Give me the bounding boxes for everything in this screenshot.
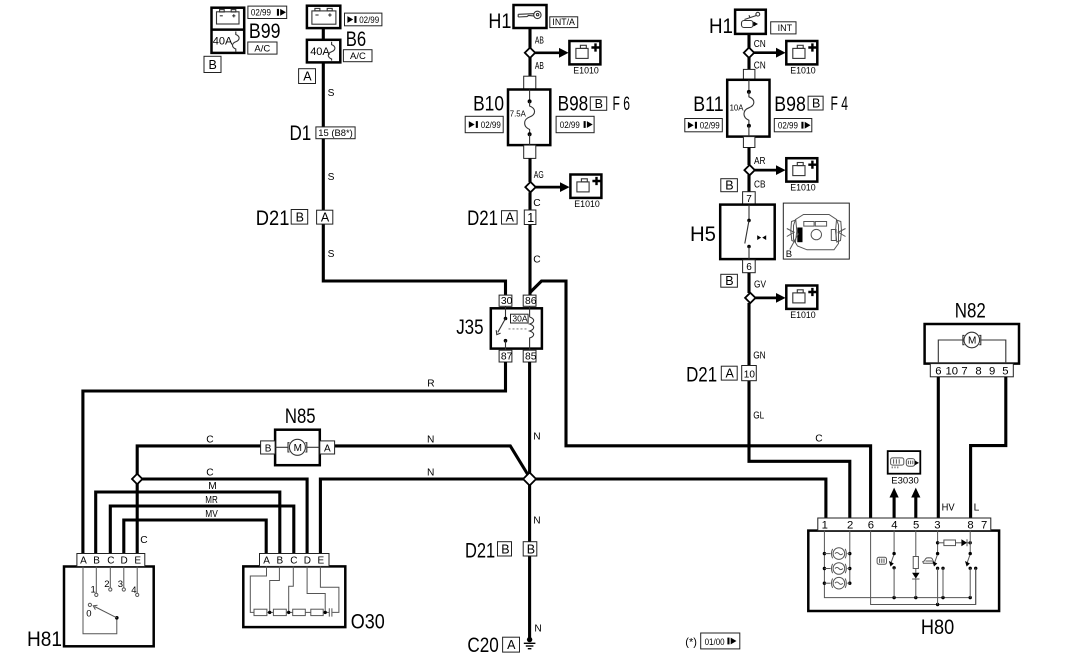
relay J35 xyxy=(491,306,542,350)
pin box 86 (J35) xyxy=(523,295,537,307)
svg-text:3: 3 xyxy=(934,519,940,531)
svg-text:C: C xyxy=(290,556,297,567)
switch contact pin 3 (H80) xyxy=(932,552,944,605)
svg-text:B: B xyxy=(265,443,272,454)
svg-text:1: 1 xyxy=(91,585,96,596)
earth point C20 xyxy=(524,637,536,649)
svg-text:D21: D21 xyxy=(467,207,498,230)
control panel H80 body xyxy=(808,531,999,611)
svg-text:B: B xyxy=(725,274,733,288)
svg-text:02/99: 02/99 xyxy=(560,120,580,131)
svg-text:GL: GL xyxy=(753,410,764,421)
svg-text:02/99: 02/99 xyxy=(481,120,501,131)
svg-text:N85: N85 xyxy=(285,405,316,428)
wire S below D21 and bend to J35 pin 30 xyxy=(323,224,505,295)
svg-text:H1: H1 xyxy=(709,15,733,38)
svg-text:D: D xyxy=(304,556,311,567)
svg-text:A: A xyxy=(321,211,330,225)
svg-text:B: B xyxy=(209,58,217,72)
svg-text:C: C xyxy=(815,433,822,444)
svg-text:E: E xyxy=(318,556,325,567)
wire GL from D21 down and to H80 pin 2 xyxy=(749,380,850,519)
svg-text:A: A xyxy=(726,367,735,381)
svg-text:B98: B98 xyxy=(774,93,806,116)
svg-text:D21: D21 xyxy=(465,540,495,563)
svg-text:E1010: E1010 xyxy=(790,183,816,194)
svg-text:01/00: 01/00 xyxy=(705,637,725,648)
svg-text:B: B xyxy=(527,542,535,556)
location thumbnail (H5 on vehicle) xyxy=(783,203,849,260)
lamp 2 (H80) xyxy=(824,563,849,575)
pin strip A-E (H81) xyxy=(77,554,145,567)
svg-text:B: B xyxy=(296,210,304,224)
svg-text:C: C xyxy=(206,467,213,478)
pin box 87 (J35) xyxy=(499,350,513,362)
wire GV from H5 pin 6 to junction xyxy=(747,273,750,293)
svg-text:B: B xyxy=(93,556,100,567)
pin box 30 (J35) xyxy=(499,295,513,307)
motor N82 xyxy=(925,324,1019,364)
svg-text:O30: O30 xyxy=(351,611,385,634)
svg-text:J35: J35 xyxy=(456,316,483,339)
lamp 3 (H80) xyxy=(824,577,849,589)
svg-text:GN: GN xyxy=(753,351,766,362)
svg-text:N: N xyxy=(427,467,434,478)
earth point E1010 (top left) xyxy=(569,41,600,64)
code box B (B98 left) xyxy=(590,97,606,111)
wire battery B6 to fuse xyxy=(322,28,325,40)
connector stub above fuse B10 xyxy=(524,76,536,89)
fuse B6 40A box xyxy=(307,40,340,63)
battery B6 xyxy=(307,6,340,28)
svg-text:4: 4 xyxy=(131,585,136,596)
connector code box B (D21 left) xyxy=(291,210,308,225)
arrow wire to earth E1010 (AR junction) xyxy=(750,165,786,175)
svg-text:M: M xyxy=(968,336,976,347)
svg-text:B: B xyxy=(786,249,792,260)
wire AR from fuse B11 to junction xyxy=(747,148,750,166)
svg-text:AB: AB xyxy=(535,36,544,47)
connector code box B (H5 lower) xyxy=(721,274,738,288)
svg-text:B: B xyxy=(595,97,603,111)
svg-text:A/C: A/C xyxy=(254,44,270,55)
wire AB from H1 to junction xyxy=(528,28,531,48)
svg-text:HV: HV xyxy=(942,502,955,513)
connector stub above fuse B11 xyxy=(743,69,755,80)
svg-text:8: 8 xyxy=(967,519,973,531)
svg-text:5: 5 xyxy=(913,519,919,531)
validity box from 02/99 (B10 right) xyxy=(556,116,594,132)
car icon (H80) xyxy=(923,558,934,563)
svg-text:6: 6 xyxy=(746,262,752,273)
svg-text:H1: H1 xyxy=(488,10,511,33)
connector code box A (D21 right) xyxy=(721,366,737,380)
junction diamond AR xyxy=(744,165,754,175)
svg-text:(*): (*) xyxy=(685,637,697,649)
svg-text:D21: D21 xyxy=(686,363,717,386)
svg-text:D1: D1 xyxy=(290,122,312,145)
svg-text:MV: MV xyxy=(205,509,218,520)
earth point E1010 (AR) xyxy=(786,158,817,181)
validity box up to 02/99 (B6) xyxy=(345,13,382,26)
variant box A/C (B99) xyxy=(248,42,277,55)
wire N from O30 pin E to main junction xyxy=(320,479,524,554)
wire S from D1 to D21 xyxy=(322,139,325,211)
svg-text:L: L xyxy=(974,502,980,513)
wire S from fuse B6 to D1 xyxy=(322,62,325,127)
svg-text:AB: AB xyxy=(535,61,544,72)
pin box 10 (D21 right) over wire xyxy=(742,366,757,381)
connector box 15 (B8*) of D1 xyxy=(316,127,355,139)
switch H81 body xyxy=(64,567,154,647)
svg-text:C: C xyxy=(107,556,114,567)
wire CB from junction to H5 pin 7 xyxy=(747,175,750,192)
pin strip 6 10 7 8 9 5 (N82) xyxy=(930,364,1013,378)
svg-text:B: B xyxy=(725,178,733,192)
connector code box A (C20) xyxy=(503,637,520,652)
junction diamond C (left) xyxy=(132,474,142,484)
svg-text:F 4: F 4 xyxy=(831,94,849,115)
svg-text:A: A xyxy=(80,556,87,567)
arrow wire to earth E1010 (CN junction) xyxy=(749,48,786,58)
switch contact pin 8 (H80) xyxy=(965,531,972,598)
svg-text:B6: B6 xyxy=(346,28,366,51)
svg-text:CN: CN xyxy=(754,61,766,72)
junction diamond CN xyxy=(744,48,754,58)
svg-text:87: 87 xyxy=(501,352,513,363)
svg-text:N: N xyxy=(533,432,540,443)
connector code box B (H5 upper) xyxy=(721,178,738,192)
svg-text:30A: 30A xyxy=(512,314,527,324)
svg-text:2: 2 xyxy=(104,579,109,590)
svg-text:N: N xyxy=(533,516,540,527)
lamp 1 (H80) xyxy=(824,548,849,560)
resistor and diode branch pin 3 to pin 8 (H80) xyxy=(936,531,972,553)
wire M from H81 pin B to O30 pin B xyxy=(96,492,280,554)
wire C from junction to N85 pin B xyxy=(137,446,260,475)
earth point E1010 (GV) xyxy=(786,286,817,309)
svg-text:R: R xyxy=(427,378,434,389)
svg-text:CN: CN xyxy=(754,39,766,50)
ignition switch H1 (INT/A) xyxy=(514,5,547,28)
junction diamond GV xyxy=(745,293,755,303)
svg-text:N82: N82 xyxy=(955,300,986,323)
svg-text:E1010: E1010 xyxy=(574,199,600,210)
earth point E1010 (mid left) xyxy=(570,175,601,198)
svg-text:1: 1 xyxy=(527,211,534,225)
svg-text:INT/A: INT/A xyxy=(552,17,575,27)
svg-text:S: S xyxy=(328,172,335,183)
svg-text:B: B xyxy=(812,96,820,110)
svg-text:1: 1 xyxy=(822,519,828,531)
wire N from J35 pin 85 to main junction xyxy=(528,362,531,475)
arrow wire from H80 pin 5 to E3030 xyxy=(911,488,920,519)
svg-text:H80: H80 xyxy=(921,616,954,639)
svg-text:A/C: A/C xyxy=(350,51,366,62)
wire branch C from J35 pin 86 up-right and down to H80 pin 6 xyxy=(530,281,871,519)
svg-text:F 6: F 6 xyxy=(613,94,631,115)
relay rating box 30A xyxy=(511,314,529,324)
wire L from N82 pin 5 to H80 pin 8 xyxy=(971,377,1006,519)
svg-text:B11: B11 xyxy=(693,93,723,116)
wire C from junction to J35 pin 86 xyxy=(528,192,531,295)
earth/services box E3030 xyxy=(888,451,921,474)
validity box 02/99 onward (B99) xyxy=(248,6,287,19)
svg-text:8: 8 xyxy=(975,365,981,377)
svg-text:B10: B10 xyxy=(473,92,504,115)
wire MR from H81 pin C to O30 pin C xyxy=(110,506,293,554)
svg-text:02/99: 02/99 xyxy=(778,121,798,132)
pin box 7 (H5) xyxy=(743,192,756,205)
svg-text:7.5A: 7.5A xyxy=(510,109,527,118)
svg-text:30: 30 xyxy=(501,296,513,307)
wire C from junction to O30 pin D xyxy=(142,479,307,554)
svg-text:C: C xyxy=(140,535,147,546)
svg-text:N: N xyxy=(427,434,434,445)
arrow wire to earth E1010 (GV junction) xyxy=(750,293,785,303)
svg-text:B: B xyxy=(277,556,284,567)
code box B (B98 right) xyxy=(808,96,823,110)
svg-text:A: A xyxy=(303,69,312,83)
svg-text:10: 10 xyxy=(946,365,959,377)
H80 internal rail pin 6 xyxy=(871,531,978,607)
wire GN from junction to D21 xyxy=(747,303,750,366)
variant box INT xyxy=(771,22,796,34)
svg-text:6: 6 xyxy=(868,519,874,531)
junction diamond AG xyxy=(525,182,535,192)
connector pin A (B6) xyxy=(299,69,316,84)
svg-text:6: 6 xyxy=(935,365,941,377)
svg-text:10A: 10A xyxy=(730,104,745,113)
svg-text:15 (B8*): 15 (B8*) xyxy=(318,128,353,139)
svg-text:A: A xyxy=(507,638,516,652)
resistor and diode pin 5 (H80) xyxy=(912,531,919,598)
validity box up to 02/99 (B10) xyxy=(465,116,503,132)
svg-text:GV: GV xyxy=(754,280,766,291)
svg-text:0: 0 xyxy=(86,609,91,620)
svg-text:C20: C20 xyxy=(467,634,498,657)
connector stub below fuse B11 xyxy=(743,137,755,148)
svg-text:M: M xyxy=(208,481,217,492)
svg-text:E1010: E1010 xyxy=(573,65,599,76)
wire CN from H1 to junction xyxy=(747,34,750,48)
connector code box B (D21 bottom) xyxy=(498,542,512,557)
H81 internal contacts and rotary switch xyxy=(83,567,139,634)
svg-text:E: E xyxy=(134,556,141,567)
fuse B10 box 7.5A xyxy=(508,90,550,146)
wire N from main junction to H80 pin 1 xyxy=(535,479,826,519)
svg-text:85: 85 xyxy=(525,352,537,363)
fuse element (B99) xyxy=(233,32,240,52)
arrow wire to earth E1010 (AB junction) xyxy=(530,48,569,58)
svg-text:N: N xyxy=(534,623,541,634)
pin box A (N85) xyxy=(320,441,335,454)
svg-text:H5: H5 xyxy=(690,223,716,246)
ignition switch H1 (INT, right) xyxy=(735,10,766,34)
fuse B11 box 10A xyxy=(727,80,769,137)
svg-text:M: M xyxy=(294,443,302,454)
wire AG from fuse B10 to junction xyxy=(528,158,531,182)
svg-text:C: C xyxy=(533,255,540,266)
svg-text:A: A xyxy=(263,556,270,567)
pin strip A-E (O30) xyxy=(260,554,330,567)
svg-text:B99: B99 xyxy=(249,20,281,43)
svg-text:7: 7 xyxy=(981,519,987,531)
svg-text:S: S xyxy=(328,249,335,260)
validity box up to 02/99 (B11) xyxy=(685,119,723,132)
svg-text:E1010: E1010 xyxy=(790,310,816,321)
earth point E1010 (top right) xyxy=(786,41,817,64)
svg-text:02/99: 02/99 xyxy=(359,15,379,26)
svg-text:B98: B98 xyxy=(558,92,589,115)
connector stub below fuse B10 xyxy=(524,145,536,158)
wire C from junction down to H81 pin E xyxy=(136,484,139,554)
pin box B (N85) xyxy=(261,441,276,454)
arrow wire to earth E1010 (AG junction) xyxy=(531,182,570,192)
svg-text:40A: 40A xyxy=(310,46,330,58)
svg-text:9: 9 xyxy=(989,365,995,377)
pin box 85 (J35) xyxy=(523,350,537,362)
switch H5 body xyxy=(720,205,775,260)
svg-text:D: D xyxy=(121,556,128,567)
svg-text:7: 7 xyxy=(961,365,967,377)
svg-text:02/99: 02/99 xyxy=(700,121,720,132)
wire HV from N82 pin 6 to H80 pin 3 xyxy=(937,377,940,519)
pin strip 1 2 6 4 5 3 8 7 (H80) xyxy=(818,518,991,531)
arrow wire from H80 pin 4 to E3030 xyxy=(890,488,899,519)
wire N from main junction to earth C20 xyxy=(528,484,531,640)
svg-text:2: 2 xyxy=(847,519,853,531)
svg-text:3: 3 xyxy=(118,579,123,590)
connector pin B (B99) xyxy=(204,56,221,72)
svg-text:86: 86 xyxy=(525,296,537,307)
svg-text:AG: AG xyxy=(534,170,544,181)
wire R from J35 pin 87 to H81 pin A xyxy=(83,362,506,554)
connector code box A (D21 middle) xyxy=(502,211,518,225)
switch contact pin 4 (H80) xyxy=(889,531,896,598)
junction diamond N (main) xyxy=(523,473,536,486)
svg-text:C: C xyxy=(533,198,540,209)
svg-text:C: C xyxy=(206,434,213,445)
validity box 01/00 onward xyxy=(701,633,740,649)
variant box A/C (B6) xyxy=(343,50,372,63)
svg-text:E1010: E1010 xyxy=(790,65,816,76)
wire MV from H81 pin D to O30 pin A xyxy=(124,520,266,554)
pin box 1 (D21 middle) over wire xyxy=(524,210,536,225)
variant box INT/A xyxy=(550,17,578,28)
pin box B (D21 bottom) over wire xyxy=(523,542,537,557)
motor N85 xyxy=(275,430,320,466)
pin box 6 (H5) xyxy=(743,260,756,273)
battery B99 with fuse 40A (combined box) xyxy=(212,8,245,53)
svg-text:S: S xyxy=(328,88,335,99)
wire N from N85 pin A to main junction (diagonal) xyxy=(335,446,530,478)
svg-text:MR: MR xyxy=(205,495,218,506)
svg-text:A: A xyxy=(506,211,515,225)
svg-text:CB: CB xyxy=(754,179,766,190)
svg-text:B: B xyxy=(501,542,509,556)
wire CN from junction to fuse B11 xyxy=(747,57,750,69)
svg-text:H81: H81 xyxy=(27,628,62,651)
svg-text:40A: 40A xyxy=(213,36,233,48)
svg-text:02/99: 02/99 xyxy=(251,8,271,19)
pin box A (D21 left) over wire xyxy=(317,210,333,224)
resistor pack O30 body xyxy=(243,566,345,627)
svg-text:AR: AR xyxy=(754,156,766,167)
svg-text:A: A xyxy=(324,443,331,454)
H80 internal lamp rail pin 1 xyxy=(823,531,972,600)
validity box from 02/99 (B11 right) xyxy=(774,119,812,132)
svg-text:5: 5 xyxy=(1002,365,1008,377)
defroster icon (H80) xyxy=(877,557,886,564)
H80 internal lamp rail pin 2 xyxy=(848,531,851,585)
svg-text:10: 10 xyxy=(744,370,756,381)
svg-text:D21: D21 xyxy=(256,207,290,230)
svg-text:INT: INT xyxy=(778,23,793,33)
svg-text:4: 4 xyxy=(891,519,897,531)
svg-text:E3030: E3030 xyxy=(891,476,918,487)
wire AB from junction to fuse B10 xyxy=(528,58,531,77)
junction diamond AB xyxy=(525,48,535,58)
O30 internal resistor chain xyxy=(250,566,339,616)
